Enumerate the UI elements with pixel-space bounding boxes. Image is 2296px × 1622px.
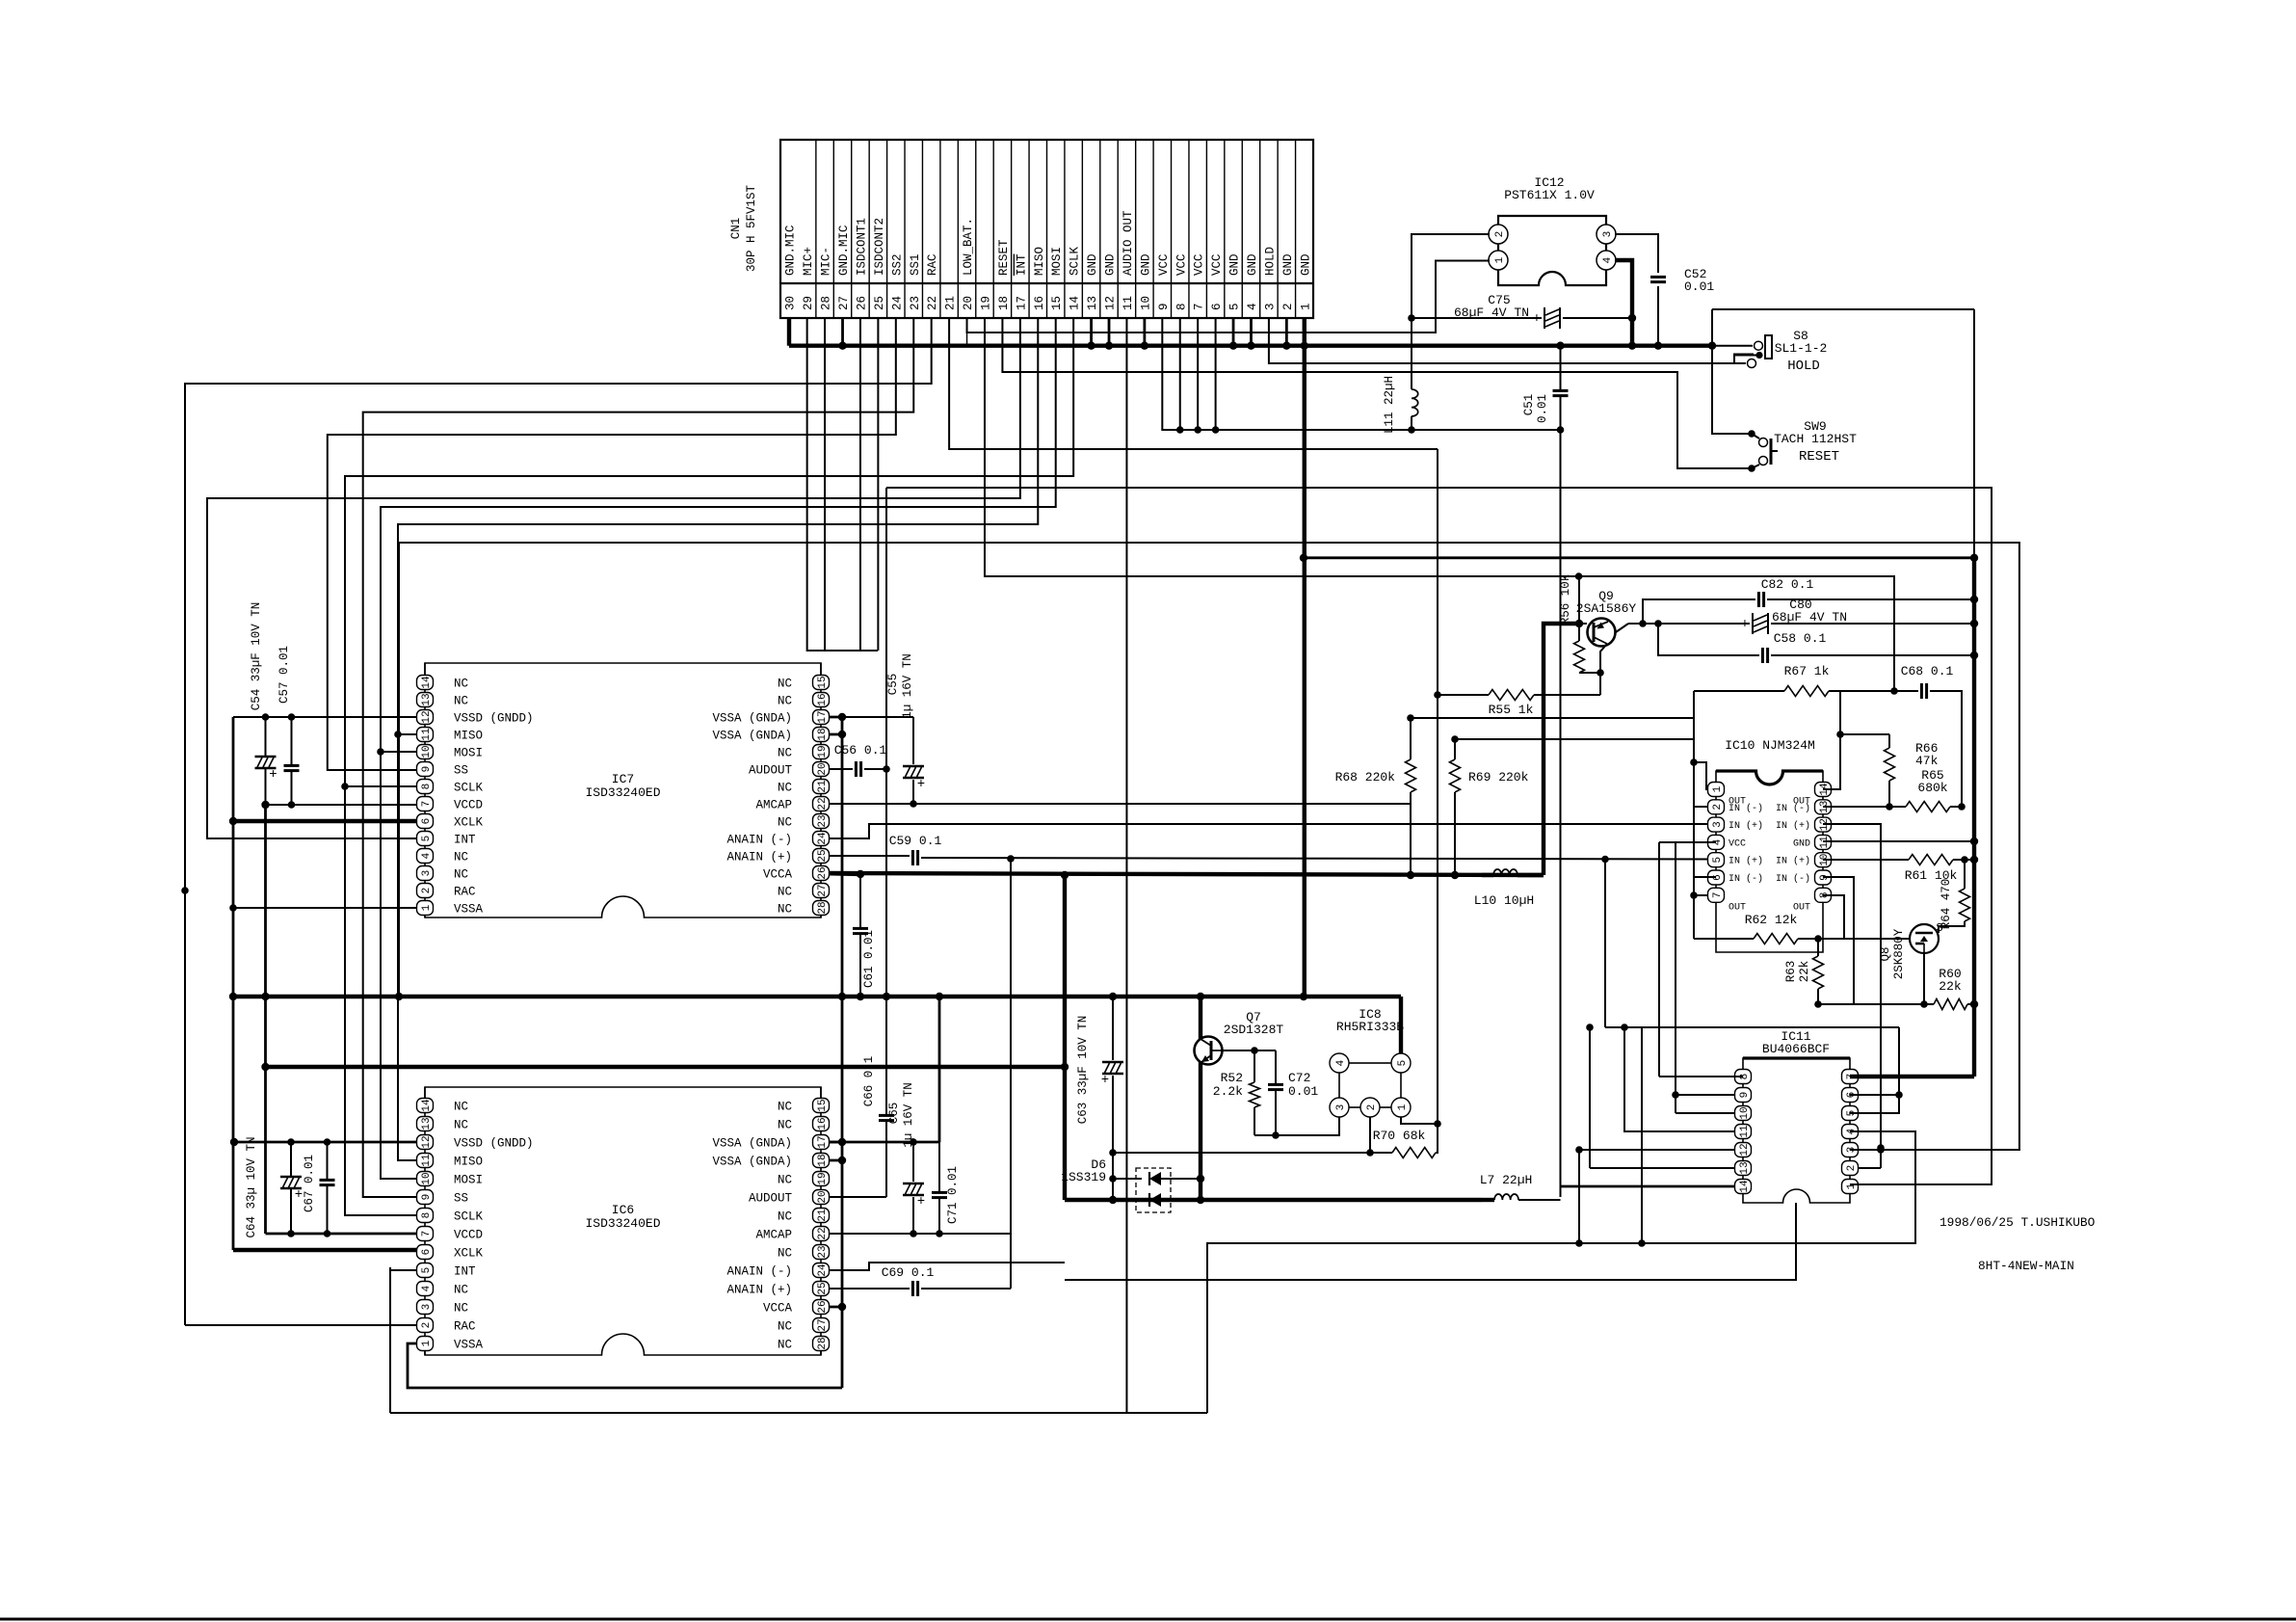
junction C54 top — [262, 713, 270, 721]
wire IC11 pin2 corner — [1850, 1167, 1881, 1169]
svg-text:3: 3 — [421, 870, 433, 877]
svg-text:C82 0.1: C82 0.1 — [1761, 577, 1814, 592]
IC11 pin 10 — [1735, 1106, 1752, 1121]
IC10 pin 6 — [1708, 870, 1725, 885]
wire y=601 net pin19 to C68 — [985, 318, 1894, 691]
svg-text:GND: GND — [1299, 253, 1312, 276]
IC10 pin 7 — [1708, 888, 1725, 902]
svg-text:7: 7 — [421, 1231, 433, 1237]
wire right thick vertical x=2049 — [1972, 558, 1976, 1077]
wire IC10 pin4 VCC feed — [1676, 841, 1716, 843]
junction trunk at lower bus — [229, 993, 237, 1000]
IC7 pin 3 — [417, 866, 434, 881]
svg-text:1: 1 — [421, 1340, 433, 1346]
svg-text:13: 13 — [421, 1117, 433, 1130]
junction bus end at S8 riser — [1708, 342, 1716, 350]
IC6 pin 27 — [813, 1318, 830, 1333]
svg-text:ANAIN (+): ANAIN (+) — [726, 851, 792, 864]
svg-text:20: 20 — [817, 762, 829, 775]
svg-text:VSSD (GNDD): VSSD (GNDD) — [454, 712, 534, 726]
svg-text:14: 14 — [421, 1099, 433, 1112]
wire VCC riser to IC11 pin14 — [1560, 430, 1562, 1197]
wire IC11 pin3 — [1850, 1149, 1881, 1151]
wire ISDCONT2 column — [877, 318, 879, 651]
wire IC7 pin17 — [821, 716, 842, 719]
svg-text:11: 11 — [421, 728, 433, 741]
IC7 pin 8 — [417, 780, 434, 794]
IC10 pin 9 — [1815, 870, 1832, 885]
IC6 pin 7 — [417, 1227, 434, 1241]
wire to IC10 pin1 — [1694, 762, 1716, 789]
IC7 pin 9 — [417, 762, 434, 777]
junction C75 right — [1628, 314, 1636, 322]
svg-text:NC: NC — [778, 903, 792, 917]
svg-text:AUDIO OUT: AUDIO OUT — [1122, 210, 1135, 276]
wire INT net: CN1 pin17 to IC7 pin5 — [207, 318, 1020, 838]
wire MIC+ column — [807, 318, 878, 651]
svg-text:47k: 47k — [1915, 754, 1939, 768]
junction IC10 pin1 feed — [1690, 758, 1698, 766]
junction C72 bottom — [1272, 1131, 1280, 1139]
svg-text:25: 25 — [817, 1282, 829, 1294]
resistor R62 12k — [1754, 934, 1798, 944]
wire IC6 pin4 loop y=1290 — [1207, 1131, 1915, 1413]
svg-text:NC: NC — [778, 747, 792, 760]
svg-text:R69 220k: R69 220k — [1468, 770, 1529, 784]
svg-text:19: 19 — [817, 745, 829, 758]
IC6 pin 5 — [417, 1263, 434, 1278]
junction MISO at IC7 pin11 — [394, 731, 402, 738]
wire VCC link y=1107 — [266, 1065, 1066, 1069]
wire IC11 pin13 feed — [1590, 1167, 1743, 1169]
svg-text:RH5RI333B: RH5RI333B — [1336, 1020, 1404, 1034]
svg-text:VCC: VCC — [1157, 253, 1171, 276]
svg-text:NC: NC — [454, 1101, 468, 1114]
svg-text:L10 10µH: L10 10µH — [1474, 893, 1534, 908]
IC6 pin 20 — [813, 1190, 830, 1205]
IC6 pin 12 — [417, 1135, 434, 1150]
inductor L11 22uH — [1411, 318, 1412, 389]
resistor R68 220k — [1406, 759, 1416, 792]
svg-text:GND: GND — [1281, 253, 1295, 276]
wire Q7 collector/emitter thick riser x=1246 — [1199, 997, 1202, 1039]
IC6 pin 18 — [813, 1154, 830, 1168]
wire HOLD net: CN1 pin3 to S8 — [1269, 318, 1754, 363]
svg-text:SCLK: SCLK — [1069, 246, 1082, 276]
svg-text:C72: C72 — [1288, 1071, 1310, 1085]
svg-text:VSSA (GNDA): VSSA (GNDA) — [712, 712, 792, 726]
resistor R67 1k — [1694, 690, 1784, 692]
svg-text:1: 1 — [1299, 303, 1312, 310]
svg-text:AMCAP: AMCAP — [755, 799, 792, 812]
svg-text:26: 26 — [817, 866, 829, 879]
capacitor C58 0.1 — [1658, 624, 1759, 655]
svg-text:17: 17 — [1015, 296, 1028, 310]
svg-text:AUDOUT: AUDOUT — [749, 1192, 793, 1206]
svg-text:RAC: RAC — [454, 886, 476, 899]
wire RAC to IC6 pin2 — [185, 1324, 425, 1326]
wire IC12 pin3 to C52 — [1615, 234, 1658, 273]
wire IC11 pin10 — [1676, 1112, 1743, 1114]
IC11 pin 4 — [1842, 1125, 1859, 1139]
svg-text:29: 29 — [802, 296, 815, 310]
svg-text:R70 68k: R70 68k — [1373, 1129, 1426, 1143]
wire MOSI net: CN1 pin15 to IC7 pin10 / IC6 pin10 — [381, 318, 1056, 1179]
svg-text:2SA1586Y: 2SA1586Y — [1576, 601, 1637, 616]
wire IC12 pin1 — [1436, 260, 1490, 262]
svg-text:C59 0.1: C59 0.1 — [889, 834, 942, 848]
wire IC10 pin12 to IC11 pin3 riser — [1823, 824, 1881, 1168]
wire VCCA bus of IC7 y=908 — [821, 873, 1544, 875]
svg-text:NC: NC — [778, 782, 792, 795]
wire top loop y=321 — [1712, 308, 1974, 310]
svg-text:24: 24 — [890, 296, 904, 310]
svg-text:7: 7 — [421, 801, 433, 808]
wire IC8 pin3 to R52/C72 — [1254, 1117, 1339, 1135]
svg-text:VCCA: VCCA — [763, 868, 793, 882]
svg-text:3: 3 — [421, 1304, 433, 1311]
wire IC10 pin11 GND line — [1823, 840, 1974, 842]
wire IC7 pin24 ANAIN- to IC10 pin3 — [821, 824, 1716, 838]
wire IC12 pin2 to L11 column — [1412, 234, 1490, 318]
resistor R70 68k — [1392, 1148, 1436, 1158]
wire IC8 pin1 down — [1401, 1117, 1438, 1124]
IC7 pin 14 — [417, 676, 434, 690]
junction SW9 top — [1748, 430, 1755, 438]
svg-text:19: 19 — [979, 296, 992, 310]
junction IC6 pin26 VCCA — [838, 1303, 846, 1311]
svg-text:+: + — [917, 777, 925, 792]
svg-text:4: 4 — [421, 1285, 433, 1291]
svg-text:GND: GND — [1086, 253, 1099, 276]
svg-text:NC: NC — [454, 1284, 468, 1297]
wire IC6 pin18 — [821, 1159, 842, 1162]
wire R70 right corner up to IC8 pin1 — [1436, 1124, 1438, 1153]
wire IC6 pin22 AMCAP line — [821, 1233, 1011, 1235]
wire IC11 pin7 thick — [1850, 1075, 1974, 1078]
wire bottom audio run y=1466 — [390, 1412, 1207, 1414]
svg-text:C64 33µ 10V TN: C64 33µ 10V TN — [245, 1136, 258, 1237]
svg-text:R52: R52 — [1221, 1071, 1243, 1085]
svg-text:MISO: MISO — [454, 730, 483, 743]
svg-text:28: 28 — [817, 901, 829, 914]
svg-text:1µ 16V TN: 1µ 16V TN — [902, 1082, 915, 1148]
svg-text:+: + — [295, 1187, 303, 1203]
svg-text:26: 26 — [855, 296, 868, 310]
svg-text:NC: NC — [454, 678, 468, 691]
svg-text:18: 18 — [817, 728, 829, 740]
svg-text:RAC: RAC — [926, 253, 939, 276]
svg-text:R67 1k: R67 1k — [1784, 664, 1830, 678]
capacitor C72 0.01 — [1275, 1050, 1277, 1084]
svg-text:IN (+): IN (+) — [1776, 856, 1810, 867]
IC10 pin 14 — [1815, 783, 1832, 797]
wire ISDCONT1 column — [859, 318, 861, 651]
IC6 pin 11 — [417, 1154, 434, 1168]
IC11 pin 6 — [1842, 1088, 1859, 1103]
svg-text:INT: INT — [1015, 253, 1028, 276]
svg-text:HOLD: HOLD — [1787, 359, 1820, 374]
wire x=1777 vertical — [1712, 309, 1752, 434]
svg-text:2: 2 — [421, 1322, 433, 1329]
IC7 pin 28 — [813, 901, 830, 916]
capacitor C54 33uF 10V TN — [265, 717, 267, 757]
svg-text:1: 1 — [421, 904, 433, 911]
svg-text:1µ 16V TN: 1µ 16V TN — [901, 653, 914, 719]
svg-text:+: + — [1533, 311, 1541, 327]
IC11 pin 13 — [1735, 1161, 1752, 1176]
svg-text:21: 21 — [817, 780, 829, 793]
junction XCLK IC7 pin6 — [229, 817, 237, 825]
svg-text:IN (-): IN (-) — [1776, 803, 1810, 814]
wire Q9 collector line y=647 — [1616, 624, 1628, 632]
IC7 pin 26 — [813, 866, 830, 881]
switch S8 SL1-1-2 HOLD — [1712, 345, 1753, 347]
wire IC7 pin25 ANAIN+ line with C59 — [821, 855, 910, 857]
svg-text:VSSD (GNDD): VSSD (GNDD) — [454, 1137, 534, 1151]
svg-text:1SS319: 1SS319 — [1061, 1170, 1106, 1184]
IC6 pin 19 — [813, 1172, 830, 1186]
svg-text:+: + — [269, 767, 277, 783]
svg-text:22k: 22k — [1939, 979, 1962, 994]
resistor R63 22k — [1817, 939, 1819, 956]
wire R68 top feed line y=745 — [1411, 717, 1694, 719]
wire Q8 drain to R62 line — [1818, 938, 1910, 940]
resistor R64 470 — [1964, 860, 1966, 889]
svg-text:3: 3 — [1263, 303, 1277, 310]
wire IC6 pin5 INT side link — [389, 1267, 391, 1413]
IC11 pin 2 — [1842, 1161, 1859, 1176]
svg-text:ANAIN (-): ANAIN (-) — [726, 834, 792, 847]
wire to IC10 pin7 — [1694, 894, 1716, 896]
svg-text:16: 16 — [817, 693, 829, 705]
junction VCC pin6 — [1212, 426, 1220, 434]
junction L11 bottom at VCC rail — [1408, 426, 1415, 434]
svg-text:C61 0.01: C61 0.01 — [862, 930, 876, 988]
IC7 pin 18 — [813, 728, 830, 742]
svg-text:11: 11 — [1739, 1125, 1751, 1138]
svg-text:HOLD: HOLD — [1263, 247, 1277, 276]
IC7 pin 19 — [813, 745, 830, 759]
svg-text:7: 7 — [1712, 891, 1724, 898]
svg-text:SL1-1-2: SL1-1-2 — [1775, 341, 1828, 356]
svg-text:GND: GND — [1139, 253, 1152, 276]
IC11 pin 12 — [1735, 1143, 1752, 1157]
junction R66 bottom — [1886, 803, 1893, 811]
wire y=563 net to IC11 pin3 loop — [399, 543, 2019, 1150]
junction C59 line riser — [1007, 855, 1015, 863]
svg-text:NC: NC — [454, 695, 468, 708]
resistor R66 47k — [1888, 734, 1890, 748]
IC6 pin 10 — [417, 1172, 434, 1186]
svg-text:NC: NC — [778, 1320, 792, 1334]
wire IC10 pin4 riser x=1722 — [1658, 842, 1660, 1077]
wire GNDA riser x=874 — [841, 717, 844, 1388]
svg-text:OUT: OUT — [1729, 902, 1746, 913]
IC6 pin 2 — [417, 1318, 434, 1333]
inductor L7 22uH — [1494, 1194, 1518, 1200]
wire MISO net: CN1 pin16 to IC7 pin11 / IC6 pin11 — [398, 318, 1038, 1160]
svg-text:MISO: MISO — [1033, 247, 1046, 276]
wire VCC thick drop x=275.5 — [264, 805, 267, 1234]
svg-text:2SK880Y: 2SK880Y — [1892, 928, 1906, 979]
svg-text:C63 33µF 10V TN: C63 33µF 10V TN — [1076, 1016, 1090, 1125]
svg-text:R55 1k: R55 1k — [1489, 703, 1534, 717]
svg-text:14: 14 — [1739, 1180, 1751, 1193]
wire R56 top riser — [1578, 576, 1580, 624]
svg-text:IN (-): IN (-) — [1729, 873, 1763, 885]
GND bus wire — [789, 344, 1712, 348]
IC11 pin 7 — [1842, 1070, 1859, 1084]
svg-text:IN (+): IN (+) — [1729, 820, 1763, 832]
svg-text:NC: NC — [778, 1174, 792, 1187]
wire thick y=578.8 from CN1 pin1 column — [1304, 556, 1974, 559]
svg-text:13: 13 — [1739, 1161, 1751, 1174]
IC10 pin 8 — [1815, 888, 1832, 902]
svg-text:GND: GND — [1104, 253, 1118, 276]
svg-text:L11 22µH: L11 22µH — [1383, 376, 1396, 434]
wire net pin21 to riser x=1492 — [949, 318, 1438, 449]
IC7 pin 2 — [417, 884, 434, 898]
svg-text:AMCAP: AMCAP — [755, 1229, 792, 1242]
svg-text:15: 15 — [817, 1099, 829, 1111]
svg-text:MOSI: MOSI — [454, 747, 483, 760]
svg-text:9: 9 — [421, 766, 433, 773]
svg-text:0.01: 0.01 — [1536, 394, 1549, 423]
junction MOSI at IC7 pin10 — [377, 748, 384, 756]
resistor R61 10k — [1909, 855, 1953, 865]
IC7 pin 6 — [417, 814, 434, 829]
IC7 pin 13 — [417, 693, 434, 707]
svg-text:12: 12 — [1739, 1143, 1751, 1156]
svg-text:SS: SS — [454, 1192, 468, 1206]
junction at VCC link y=1107 — [261, 1063, 269, 1071]
junction IC6 pin17 — [838, 1138, 846, 1146]
capacitor C64 33u 10V TN — [290, 1142, 292, 1177]
svg-text:1998/06/25 T.USHIKUBO: 1998/06/25 T.USHIKUBO — [1940, 1215, 2096, 1230]
IC6 pin 17 — [813, 1135, 830, 1150]
svg-text:VCCD: VCCD — [454, 1229, 483, 1242]
svg-text:30: 30 — [784, 296, 798, 310]
svg-text:3: 3 — [1335, 1104, 1347, 1111]
svg-text:CN1: CN1 — [729, 218, 743, 240]
svg-text:NC: NC — [454, 1302, 468, 1316]
svg-text:IC7: IC7 — [612, 772, 634, 786]
wire VCCA bus y=1034 — [234, 995, 1401, 998]
svg-text:VSSA: VSSA — [454, 1339, 484, 1352]
svg-text:3: 3 — [1602, 231, 1614, 238]
svg-text:22: 22 — [817, 797, 829, 810]
wire IC7 pin18 — [821, 733, 842, 736]
junction C63 line at R70 line — [1109, 1149, 1117, 1157]
svg-text:IC10 NJM324M: IC10 NJM324M — [1725, 738, 1815, 753]
IC7 pin 16 — [813, 693, 830, 707]
svg-text:15: 15 — [817, 676, 829, 688]
svg-text:C69 0.1: C69 0.1 — [882, 1265, 935, 1280]
IC7 pin 20 — [813, 762, 830, 777]
resistor R60 22k — [1934, 999, 1967, 1010]
IC7 pin 21 — [813, 780, 830, 794]
wire riser x=1049 — [1010, 859, 1012, 1289]
svg-text:680k: 680k — [1917, 781, 1947, 795]
svg-text:16: 16 — [817, 1117, 829, 1130]
IC7 pin 10 — [417, 745, 434, 759]
wire IC11 pin4 — [1850, 1130, 1915, 1132]
IC7 pin 12 — [417, 710, 434, 725]
IC7 pin 7 — [417, 797, 434, 811]
svg-text:+: + — [917, 1194, 925, 1210]
IC IC7 ISD33240ED — [425, 663, 821, 917]
junction C58 riser — [1654, 620, 1662, 627]
svg-text:C57 0.01: C57 0.01 — [277, 646, 291, 704]
svg-text:1: 1 — [1712, 785, 1724, 792]
svg-text:18: 18 — [817, 1154, 829, 1166]
IC10 pin 13 — [1815, 800, 1832, 814]
IC10 pin 5 — [1708, 853, 1725, 867]
junction Q9 base — [1575, 620, 1583, 627]
wire thick riser x=1602 to Q9 base — [1544, 624, 1579, 875]
junction IC11 pin2/pin3 — [1877, 1146, 1885, 1154]
svg-text:2: 2 — [1281, 303, 1295, 310]
svg-text:NC: NC — [454, 868, 468, 882]
diode D6 1SS319 dual — [1136, 1168, 1171, 1212]
svg-text:L7 22µH: L7 22µH — [1480, 1173, 1533, 1187]
svg-text:C65: C65 — [887, 1103, 901, 1125]
wire R60 line y=1042 — [1814, 1000, 1822, 1008]
wire IC11 pin11 riser x=1686 — [1624, 1027, 1743, 1131]
svg-text:SCLK: SCLK — [454, 1210, 484, 1224]
IC6 pin 21 — [813, 1209, 830, 1223]
svg-text:22: 22 — [817, 1227, 829, 1239]
svg-text:10: 10 — [1139, 296, 1152, 310]
wire IC6 VSSA U loop — [408, 1343, 842, 1388]
svg-text:5: 5 — [1228, 303, 1242, 310]
svg-text:IN (+): IN (+) — [1729, 856, 1763, 867]
wire y=1328 under IC11 — [1065, 1203, 1796, 1280]
svg-text:2: 2 — [421, 888, 433, 894]
wire pin30 to bus — [787, 318, 791, 346]
resistor R69 220k — [1450, 759, 1461, 792]
capacitor C63 33uF 10V TN — [1112, 997, 1114, 1060]
svg-text:8: 8 — [421, 784, 433, 790]
svg-text:ISDCONT2: ISDCONT2 — [873, 218, 886, 276]
wire VCC rail y=446: CN1 pin9 VCC with pins 8,7,6 — [1162, 318, 1560, 430]
svg-text:20: 20 — [962, 296, 975, 310]
junction VCC pin7 — [1194, 426, 1201, 434]
svg-text:+: + — [1101, 1073, 1109, 1088]
junction C56 right — [883, 765, 890, 773]
capacitor C52 0.01 — [1650, 276, 1666, 279]
svg-text:2: 2 — [1366, 1104, 1378, 1111]
wire riser x=1704 — [1641, 1027, 1643, 1243]
svg-text:9: 9 — [1157, 303, 1171, 310]
wire IC10 pin13 / R65 line — [1823, 806, 1889, 808]
IC11 pin 8 — [1735, 1070, 1752, 1084]
svg-text:5: 5 — [421, 836, 433, 842]
junction IC7 pin18 — [838, 731, 846, 738]
svg-text:16: 16 — [1033, 296, 1046, 310]
wire IC6 pin24 ANAIN- — [821, 1263, 1065, 1270]
svg-text:IN (+): IN (+) — [1776, 820, 1810, 832]
junction pin2 GND — [1282, 342, 1290, 350]
junction VSSA IC7 pin1 — [229, 904, 237, 912]
capacitor C71 0.01 — [938, 1142, 940, 1191]
svg-text:21: 21 — [817, 1209, 829, 1222]
svg-text:R63: R63 — [1784, 961, 1798, 983]
svg-text:11: 11 — [421, 1154, 433, 1167]
svg-text:IN (-): IN (-) — [1776, 873, 1810, 885]
connector CN1 30P H 5FV1ST — [780, 140, 1313, 318]
